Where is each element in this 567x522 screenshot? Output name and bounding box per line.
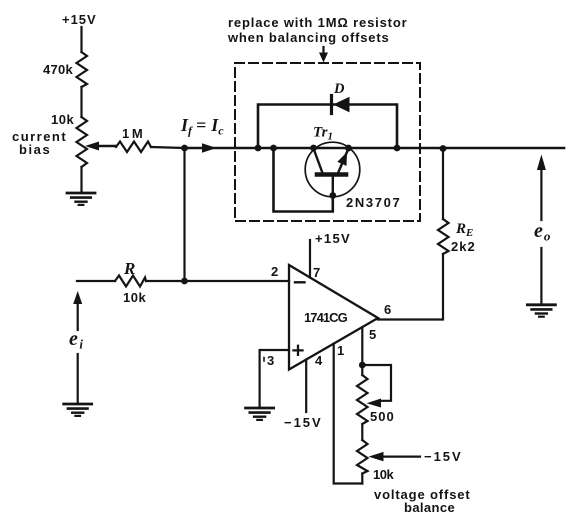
ground (current bias) bbox=[67, 193, 95, 205]
svg-text:2N3707: 2N3707 bbox=[346, 195, 400, 210]
wire non-inverting input to ground bbox=[260, 350, 289, 408]
wire 500 to 10k bbox=[361, 424, 363, 440]
annotation: replace with 1M resistor when balancing offsets bbox=[227, 15, 407, 45]
svg-text:1M: 1M bbox=[122, 126, 143, 141]
pin label 1 bbox=[337, 343, 345, 358]
svg-text:ei: ei bbox=[69, 328, 83, 352]
wire +15V to 470k bbox=[80, 27, 82, 52]
ground (e_i) bbox=[64, 404, 92, 416]
wire diode branch (left riser, top, right riser) bbox=[258, 105, 397, 149]
node base loop top bbox=[270, 145, 277, 152]
wire 1M to summing node bbox=[151, 147, 184, 148]
transistor Tr1 circle bbox=[305, 142, 360, 197]
node summing junction bbox=[181, 145, 188, 152]
wire pin 1 down and to 10k bottom bbox=[334, 344, 363, 484]
svg-text:500: 500 bbox=[370, 409, 394, 424]
svg-text:replace with 1MΩ resistor: replace with 1MΩ resistor bbox=[228, 15, 407, 30]
svg-text:when balancing offsets: when balancing offsets bbox=[227, 30, 389, 45]
label +15V (op-amp) bbox=[315, 231, 350, 246]
power +15V label (top left) bbox=[62, 12, 96, 27]
node inverting wire bbox=[181, 278, 188, 285]
op-amp U1 1741CG triangle bbox=[289, 265, 378, 370]
label voltage offset balance bbox=[374, 487, 470, 515]
main horizontal wire bbox=[184, 147, 564, 150]
svg-text:3: 3 bbox=[267, 353, 275, 368]
source e_i arrow bbox=[77, 302, 79, 330]
potentiometer 10k (offset) bbox=[357, 440, 368, 474]
pin label 3 bbox=[267, 353, 275, 368]
label 2N3707 bbox=[346, 195, 400, 210]
wire e_i to R bbox=[77, 280, 115, 282]
annotation down-arrow bbox=[322, 47, 324, 53]
svg-text:−15V: −15V bbox=[424, 449, 461, 464]
wiper arrow of 10k from -15V bbox=[382, 456, 420, 458]
svg-text:5: 5 bbox=[369, 327, 377, 342]
svg-text:470k: 470k bbox=[43, 62, 73, 77]
transistor base bar bbox=[317, 172, 346, 177]
node collector on main wire bbox=[310, 145, 317, 152]
svg-text:4: 4 bbox=[315, 353, 323, 368]
svg-text:+15V: +15V bbox=[315, 231, 350, 246]
pin label 7 bbox=[313, 265, 321, 280]
ground (e_o) bbox=[527, 305, 555, 317]
svg-text:1741CG: 1741CG bbox=[304, 310, 348, 325]
wire pin 5 down to 500 pot bbox=[361, 327, 363, 375]
svg-text:R: R bbox=[123, 259, 135, 278]
minus sign inverting input bbox=[295, 281, 305, 283]
dashed box bbox=[235, 63, 420, 221]
resistor R 10k bbox=[115, 276, 146, 287]
wire summing node down to inverting input bbox=[183, 148, 185, 281]
node base at circle bbox=[329, 192, 336, 199]
resistor RE 2k2 bbox=[438, 219, 449, 254]
svg-text:2: 2 bbox=[271, 264, 279, 279]
svg-text:10k: 10k bbox=[123, 290, 146, 305]
svg-text:RE: RE bbox=[455, 221, 473, 239]
pin label 2 bbox=[271, 264, 279, 279]
wire inverting input from R to op-amp bbox=[146, 280, 289, 282]
label If = Ic bbox=[180, 115, 224, 138]
potentiometer 10k current bias bbox=[77, 117, 88, 167]
diode D bbox=[333, 97, 349, 113]
wire pin 7 to +15V bbox=[309, 240, 311, 278]
svg-text:1: 1 bbox=[337, 343, 345, 358]
node 500 top bbox=[359, 362, 366, 369]
svg-text:+15V: +15V bbox=[62, 12, 96, 27]
svg-text:10k: 10k bbox=[51, 112, 74, 127]
node diode right bbox=[394, 145, 401, 152]
svg-text:6: 6 bbox=[384, 302, 392, 317]
node RE top bbox=[440, 145, 447, 152]
svg-text:Tr1: Tr1 bbox=[313, 125, 333, 143]
wire pot to ground bbox=[80, 167, 82, 193]
svg-text:balance: balance bbox=[404, 500, 455, 515]
transistor base lead bbox=[332, 177, 334, 196]
resistor 470k bbox=[77, 52, 88, 87]
svg-text:If=Ic: If=Ic bbox=[180, 115, 224, 138]
wire 470k to 10k pot bbox=[80, 87, 82, 117]
ground (op-amp pin 3) bbox=[246, 408, 274, 420]
wire 10k bottom bbox=[361, 474, 363, 484]
svg-text:−15V: −15V bbox=[284, 415, 321, 430]
wire RE bottom to op-amp output bbox=[378, 254, 443, 320]
transistor collector lead bbox=[314, 149, 323, 174]
wiper loop of 500 pot bbox=[362, 365, 391, 401]
wiper arrow of current bias pot bbox=[97, 145, 116, 147]
svg-text:10k: 10k bbox=[373, 467, 394, 482]
label 1741CG bbox=[304, 310, 348, 325]
node emitter on main wire bbox=[345, 145, 352, 152]
wire node to RE bbox=[442, 149, 444, 220]
wire pin 4 to -15V bbox=[305, 360, 307, 413]
potentiometer 500 bbox=[357, 375, 368, 424]
wire base loop bbox=[274, 148, 333, 212]
pin label 4 bbox=[315, 353, 323, 368]
label Tr1 bbox=[313, 125, 333, 143]
svg-text:2k2: 2k2 bbox=[451, 239, 475, 254]
svg-text:eo: eo bbox=[534, 220, 551, 244]
node diode left bbox=[255, 145, 262, 152]
svg-text:7: 7 bbox=[313, 265, 321, 280]
transistor emitter lead with arrow bbox=[338, 149, 349, 174]
current arrow If on main wire bbox=[202, 143, 217, 152]
label -15V (pin 4) bbox=[284, 415, 321, 430]
plus sign non-inverting input bbox=[294, 346, 303, 355]
pin label 6 bbox=[384, 302, 392, 317]
resistor 1M bbox=[116, 142, 151, 153]
pin label 5 bbox=[369, 327, 377, 342]
svg-text:bias: bias bbox=[19, 142, 50, 157]
output arrow e_o bbox=[540, 168, 542, 220]
svg-text:D: D bbox=[333, 81, 345, 97]
